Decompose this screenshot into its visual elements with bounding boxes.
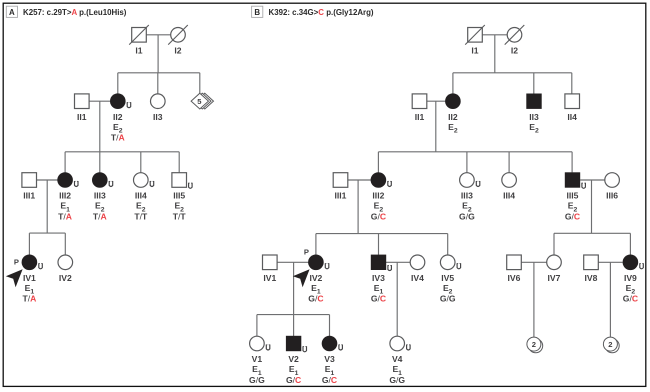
wire: sibship line B gen II — [453, 72, 572, 74]
individual B-IV2 proband affected female — [293, 248, 329, 304]
svg-text:IV2: IV2 — [59, 273, 72, 283]
wire: drop to B V3 — [329, 315, 331, 337]
svg-text:K392: c.34G>C p.(Gly12Arg): K392: c.34G>C p.(Gly12Arg) — [269, 8, 374, 17]
svg-text:I1: I1 — [471, 46, 478, 56]
wire: drop to B III5 — [571, 152, 573, 173]
wire: sibship line B gen IV right — [554, 232, 630, 234]
individual B-IV6 male — [507, 255, 522, 283]
svg-text:G/G: G/G — [440, 294, 456, 304]
svg-text:V2: V2 — [288, 354, 299, 364]
svg-text:V3: V3 — [324, 354, 335, 364]
individual B-II1 male — [412, 94, 427, 122]
svg-text:II3: II3 — [529, 112, 539, 122]
wire: drop to B IV2 — [315, 234, 317, 256]
wire: drop to B III4 — [508, 152, 510, 173]
individual A-I1 deceased male — [129, 25, 149, 56]
wire: drop to B V2 — [293, 315, 295, 337]
wire: descent B IV8-IV9 to multiple 2 — [609, 262, 611, 337]
svg-text:T/T: T/T — [173, 211, 187, 221]
individual B-III4 female — [502, 173, 517, 201]
individual B-II4 male — [565, 94, 580, 122]
svg-text:G/C: G/C — [286, 375, 301, 385]
individual A-II1 male — [75, 94, 90, 122]
wire: descent A gen II to sibship III — [99, 101, 101, 152]
wire: drop to B III3 — [466, 152, 468, 173]
sibling group B multiple-2 left — [527, 337, 543, 353]
svg-text:III5: III5 — [567, 191, 579, 201]
svg-text:III1: III1 — [335, 191, 347, 201]
svg-text:T/A: T/A — [22, 294, 36, 304]
wire: drop to B V1 — [256, 315, 258, 337]
svg-text:II2: II2 — [113, 112, 123, 122]
svg-text:II1: II1 — [77, 112, 87, 122]
individual A-I2 deceased female — [168, 25, 188, 56]
svg-text:G/C: G/C — [371, 294, 386, 304]
svg-text:III5: III5 — [173, 191, 185, 201]
wire: drop to B III2 — [377, 152, 379, 173]
svg-text:G/C: G/C — [565, 211, 580, 221]
wire: sibship line B gen III — [378, 151, 572, 153]
wire: descent A gen III to sibship IV — [46, 180, 48, 233]
wire: sibship line A gen II — [118, 72, 200, 74]
wire: drop to B IV9 — [629, 233, 631, 255]
svg-text:V4: V4 — [392, 354, 403, 364]
sibling group A diamond 5 — [191, 93, 213, 109]
svg-text:II2: II2 — [448, 112, 458, 122]
svg-text:IV7: IV7 — [548, 273, 561, 283]
wire: couple line B II1-II2 — [427, 100, 446, 102]
wire: couple line B I1-I2 — [482, 34, 507, 36]
wire: descent B IV3-IV4 to V4 — [396, 262, 398, 336]
svg-text:III3: III3 — [461, 191, 473, 201]
individual B-IV7 female — [547, 255, 562, 283]
individual A-II3 female — [151, 94, 166, 122]
svg-text:T/A: T/A — [93, 211, 107, 221]
individual A-III3 affected female — [92, 172, 113, 221]
panel label box A — [6, 6, 17, 17]
svg-text:P: P — [304, 248, 309, 257]
svg-text:G/C: G/C — [371, 211, 386, 221]
svg-text:IV1: IV1 — [263, 273, 276, 283]
svg-text:II3: II3 — [153, 112, 163, 122]
svg-text:T/A: T/A — [111, 133, 125, 143]
wire: drop to A IV1 — [28, 233, 30, 255]
svg-text:G/C: G/C — [322, 375, 337, 385]
wire: drop to B II3 — [533, 73, 535, 94]
individual B-V3 affected female — [322, 336, 343, 385]
individual B-IV3 affected male — [371, 255, 392, 304]
individual B-III1 male — [333, 173, 348, 201]
individual B-II2 affected female — [445, 93, 461, 134]
wire: descent A gen I to sibship II — [157, 35, 159, 73]
individual A-III2 affected female — [57, 172, 78, 221]
wire: drop to A II3 — [157, 73, 159, 94]
svg-text:B: B — [254, 8, 260, 17]
individual B-IV4 female — [410, 255, 425, 283]
wire: drop to A III5 — [178, 152, 180, 173]
individual B-II3 affected male — [526, 94, 541, 135]
svg-text:III4: III4 — [135, 191, 147, 201]
svg-text:IV1: IV1 — [23, 273, 36, 283]
svg-text:T/T: T/T — [134, 211, 148, 221]
svg-text:G/C: G/C — [308, 294, 323, 304]
wire: descent B IV1-IV2 to sibship V — [293, 262, 295, 314]
individual B-V1 female — [249, 336, 270, 385]
svg-text:G/C: G/C — [623, 294, 638, 304]
wire: couple line B III5-III6 — [580, 179, 604, 181]
wire: drop to B IV3 — [378, 234, 380, 255]
svg-text:III2: III2 — [372, 191, 384, 201]
wire: drop to B IV5 — [447, 234, 449, 256]
individual B-V4 female — [389, 336, 410, 385]
wire: couple line B IV1-IV2 — [277, 261, 308, 263]
wire: descent B gen I to sibship II — [494, 35, 496, 73]
individual B-IV5 female — [440, 255, 461, 304]
individual B-III5 affected male — [565, 172, 586, 221]
individual A-II2 affected female — [110, 93, 131, 142]
svg-text:V1: V1 — [252, 354, 263, 364]
individual B-III6 female — [605, 173, 620, 201]
wire: drop to B II4 — [571, 73, 573, 94]
svg-text:III6: III6 — [606, 191, 618, 201]
wire: descent B IV6-IV7 to multiple 2 — [533, 262, 535, 337]
svg-text:2: 2 — [532, 340, 536, 349]
wire: sibship line A gen IV — [29, 232, 65, 234]
svg-text:I2: I2 — [511, 46, 518, 56]
individual A-IV2 female — [58, 255, 73, 283]
svg-text:II4: II4 — [567, 112, 577, 122]
individual B-IV1 male — [263, 255, 278, 283]
svg-text:IV2: IV2 — [309, 273, 322, 283]
svg-text:IV8: IV8 — [585, 273, 598, 283]
wire: couple line B IV6-IV7 — [522, 261, 547, 263]
svg-text:G/G: G/G — [249, 375, 265, 385]
svg-text:G/G: G/G — [459, 211, 475, 221]
individual B-III3 female — [459, 173, 480, 222]
wire: drop to A II2 — [117, 73, 119, 94]
wire: couple line A III1-III2 — [37, 179, 58, 181]
svg-text:A: A — [9, 8, 15, 17]
individual B-I1 deceased male — [465, 25, 485, 56]
wire: sibship line B gen V — [257, 314, 330, 316]
svg-text:III1: III1 — [23, 191, 35, 201]
svg-text:III3: III3 — [94, 191, 106, 201]
svg-text:III4: III4 — [503, 191, 515, 201]
svg-text:IV4: IV4 — [411, 273, 424, 283]
svg-text:IV5: IV5 — [441, 273, 454, 283]
sibling group B multiple-2 right — [603, 337, 619, 353]
svg-text:II1: II1 — [415, 112, 425, 122]
wire: descent B gen III left to sibship IVa — [357, 180, 359, 234]
svg-text:IV9: IV9 — [624, 273, 637, 283]
wire: descent B gen III right to sibship IVb — [591, 180, 593, 233]
wire: descent B gen II to sibship III — [435, 101, 437, 152]
individual A-III4 female — [134, 173, 154, 222]
individual B-IV8 male — [584, 255, 599, 283]
svg-text:IV6: IV6 — [508, 273, 521, 283]
wire: drop to B IV7 — [553, 233, 555, 255]
individual A-III1 male — [22, 173, 37, 201]
svg-text:P: P — [14, 257, 19, 266]
wire: drop to A diamond — [199, 73, 201, 94]
wire: couple line A I1-I2 — [146, 34, 170, 36]
individual B-V2 affected male — [286, 336, 307, 385]
wire: drop to A III3 — [99, 152, 101, 173]
panel label box B — [252, 6, 263, 17]
wire: drop to B II2 — [452, 73, 454, 94]
individual B-III2 affected female — [371, 172, 392, 221]
wire: couple line B IV8-IV9 — [599, 261, 623, 263]
wire: couple line B III1-III2 — [348, 179, 372, 181]
wire: sibship line B gen IV left — [316, 233, 448, 235]
individual B-I2 deceased female — [505, 25, 525, 56]
svg-text:I1: I1 — [135, 46, 142, 56]
svg-text:K257: c.29T>A p.(Leu10His): K257: c.29T>A p.(Leu10His) — [23, 8, 127, 17]
svg-text:G/G: G/G — [389, 375, 405, 385]
svg-text:IV3: IV3 — [372, 273, 385, 283]
individual A-III5 male — [172, 173, 192, 222]
wire: couple line A II1-II2 — [89, 100, 110, 102]
svg-text:T/A: T/A — [58, 211, 72, 221]
wire: sibship line A gen III — [65, 151, 179, 153]
wire: drop to A III4 — [140, 152, 142, 173]
individual A-IV1 proband affected female — [6, 254, 43, 303]
svg-text:III2: III2 — [59, 191, 71, 201]
svg-text:2: 2 — [608, 340, 612, 349]
individual B-IV9 affected female — [623, 254, 644, 303]
wire: couple line B IV3-IV4 — [386, 261, 410, 263]
wire: drop to A III2 — [64, 152, 66, 173]
svg-text:I2: I2 — [174, 46, 181, 56]
wire: drop to A IV2 — [64, 233, 66, 255]
